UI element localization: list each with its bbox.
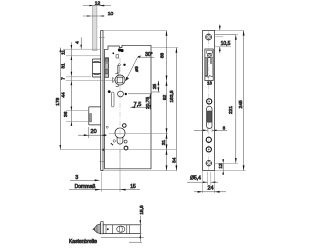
svg-text:4: 4 (75, 41, 81, 44)
svg-text:221: 221 (228, 106, 234, 114)
svg-text:Kastenbreite: Kastenbreite (69, 239, 97, 245)
svg-text:12: 12 (218, 163, 224, 169)
svg-text:25: 25 (152, 84, 158, 90)
svg-text:3: 3 (75, 175, 78, 181)
svg-text:20: 20 (91, 129, 97, 135)
svg-text:20,75: 20,75 (145, 97, 151, 109)
svg-text:13: 13 (207, 81, 212, 86)
svg-text:15,5: 15,5 (139, 205, 145, 215)
svg-text:92: 92 (162, 95, 168, 101)
svg-text:44: 44 (61, 92, 67, 98)
svg-text:24: 24 (207, 185, 213, 191)
svg-text:10,5: 10,5 (221, 41, 231, 47)
svg-text:8: 8 (223, 125, 226, 130)
svg-text:34: 34 (172, 157, 178, 163)
svg-text:10: 10 (108, 11, 114, 17)
svg-text:31: 31 (61, 63, 67, 69)
svg-text:183,5: 183,5 (169, 90, 175, 102)
svg-text:36: 36 (63, 111, 69, 117)
svg-text:245: 245 (238, 100, 244, 108)
svg-text:ø9: ø9 (134, 66, 140, 72)
svg-text:11: 11 (61, 50, 67, 55)
svg-text:178: 178 (55, 97, 61, 105)
svg-text:31: 31 (161, 140, 167, 146)
svg-text:12: 12 (95, 0, 101, 6)
svg-text:15: 15 (130, 184, 136, 190)
svg-text:Dornmaß: Dornmaß (75, 184, 96, 190)
svg-text:Ø5,4: Ø5,4 (190, 176, 201, 182)
svg-text:88: 88 (160, 53, 166, 59)
svg-text:7: 7 (61, 77, 67, 80)
